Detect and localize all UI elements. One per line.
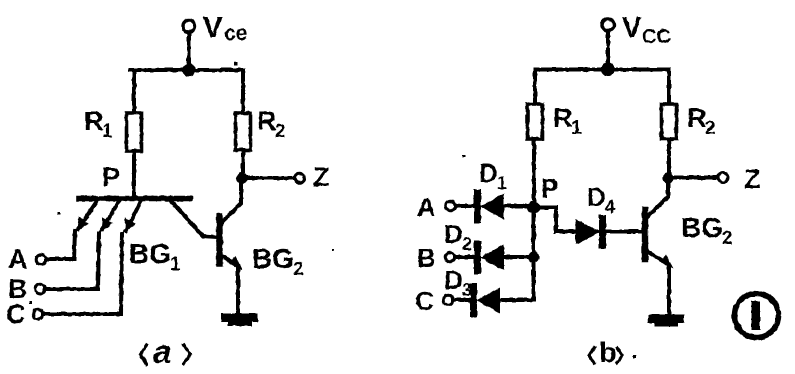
wire Vcc to rail (a)	[187, 33, 191, 71]
transistor BG1 emitter 1	[78, 201, 97, 229]
wire top rail (b)	[535, 68, 669, 72]
wire R2 to node (b)	[667, 139, 671, 174]
Vcc terminal (b)	[602, 19, 614, 31]
input terminal A (b)	[446, 201, 456, 211]
svg-text:Z: Z	[313, 162, 330, 192]
diode D4	[576, 219, 602, 245]
label BG1	[129, 238, 181, 275]
label Z (b)	[744, 164, 761, 194]
wire emitter1 to A	[46, 231, 75, 259]
svg-text:A: A	[417, 192, 436, 222]
wire emitter to ground (b)	[667, 264, 671, 315]
svg-text:C: C	[415, 286, 434, 316]
label Z (a)	[313, 162, 330, 192]
label B (b)	[417, 243, 436, 273]
svg-text:B: B	[417, 243, 436, 273]
wire B to D2	[455, 255, 476, 259]
transistor BG2 collector (a)	[222, 180, 241, 222]
wire rail to R1 (b)	[533, 70, 537, 105]
label Vcc (a)	[203, 12, 247, 45]
wire R1 to base bar (a)	[132, 151, 136, 199]
wire R1 to node P	[532, 139, 536, 207]
input terminal C (b)	[443, 295, 453, 305]
svg-text:2: 2	[293, 259, 304, 280]
label B (a)	[8, 274, 28, 304]
wire emitter2 to B	[45, 233, 99, 289]
transistor BG1 emitter 2	[102, 201, 119, 230]
wire Vcc to rail (b)	[606, 32, 610, 70]
svg-text:BG: BG	[681, 212, 723, 243]
label D3	[444, 265, 472, 300]
wire emitter3 to C	[43, 234, 122, 314]
wire A to D1	[456, 204, 477, 208]
label A (b)	[417, 192, 436, 222]
transistor BG2 emitter (a)	[222, 256, 236, 265]
resistor R2 (b)	[662, 104, 677, 139]
svg-text:D: D	[479, 158, 498, 188]
junction dot Vcc rail (b)	[601, 63, 614, 76]
svg-text:BG: BG	[129, 238, 171, 269]
label (a)	[141, 345, 191, 364]
svg-text:V: V	[622, 12, 642, 44]
svg-text:4: 4	[605, 197, 615, 217]
resistor R2 (a)	[236, 113, 251, 150]
node P label (b)	[541, 173, 558, 203]
label (b)	[589, 348, 622, 363]
wire D3 to bus corner	[499, 298, 534, 302]
svg-text:R: R	[84, 106, 104, 136]
wire D2 to bus	[503, 255, 530, 259]
label BG2 (b)	[681, 212, 733, 249]
ground (a)	[221, 314, 258, 327]
transistor BG1 emitter 3	[126, 201, 141, 231]
ground (b)	[648, 315, 684, 327]
svg-text:2: 2	[705, 118, 716, 139]
label D1	[479, 158, 507, 193]
label BG2 (a)	[252, 243, 304, 280]
label R2 (b)	[687, 103, 716, 139]
input terminal C (a)	[33, 309, 43, 319]
junction dot B row	[528, 251, 539, 262]
svg-text:1: 1	[497, 173, 507, 193]
input terminal B (b)	[445, 252, 455, 262]
transistor BG2 collector (b)	[648, 180, 668, 216]
input terminal B (a)	[35, 284, 45, 294]
label D4	[587, 182, 615, 217]
svg-text:1: 1	[571, 118, 582, 139]
label D2	[444, 219, 472, 254]
label C (b)	[415, 286, 434, 316]
svg-text:b: b	[599, 337, 617, 369]
svg-text:ce: ce	[224, 22, 247, 45]
svg-text:R: R	[553, 103, 573, 133]
wire P to D4	[534, 208, 576, 232]
wire D1 to P	[503, 204, 530, 208]
wire C to D3	[453, 298, 472, 302]
label A (a)	[8, 244, 28, 274]
wire bus P down to C row	[532, 208, 536, 301]
transistor BG2 emitter (b)	[648, 252, 666, 263]
junction dot collector Z (a)	[236, 172, 247, 183]
wire R2 to node (a)	[241, 150, 245, 176]
input terminal A (a)	[36, 255, 46, 265]
figure number I in circle	[735, 294, 779, 338]
scan specks	[29, 62, 636, 358]
svg-text:2: 2	[722, 228, 733, 249]
svg-text:CC: CC	[642, 26, 671, 48]
svg-text:D: D	[587, 182, 606, 212]
wire node to Z (a)	[242, 176, 294, 180]
diode D2	[474, 244, 481, 271]
svg-text:2: 2	[275, 121, 286, 142]
label R2 (a)	[257, 106, 286, 142]
svg-text:A: A	[8, 244, 28, 274]
diode D1	[474, 193, 481, 220]
wire node to Z (b)	[668, 176, 717, 180]
svg-text:P: P	[102, 162, 120, 192]
label R1 (b)	[553, 103, 582, 139]
wire D4 to BG2 base (b)	[605, 230, 642, 234]
wire top rail (a)	[130, 68, 244, 72]
svg-text:D: D	[444, 265, 463, 295]
junction dot Vcc rail (a)	[182, 63, 195, 76]
label R1 (a)	[84, 106, 113, 142]
svg-text:BG: BG	[252, 243, 294, 274]
Vcc terminal (a)	[183, 20, 195, 32]
svg-text:1: 1	[102, 121, 113, 142]
resistor R1 (b)	[528, 104, 543, 139]
transistor BG2 base bar (b)	[642, 210, 648, 259]
junction dot P	[527, 201, 540, 214]
output terminal Z (a)	[295, 173, 305, 183]
node P label (a)	[102, 162, 120, 192]
wire rail to R1 (a)	[132, 70, 136, 114]
svg-text:R: R	[257, 106, 277, 136]
label C (a)	[6, 299, 26, 329]
svg-text:V: V	[203, 12, 223, 44]
svg-text:D: D	[444, 219, 463, 249]
diode D3	[470, 287, 477, 314]
junction dot collector Z (b)	[662, 172, 673, 183]
svg-text:3: 3	[462, 280, 472, 300]
svg-text:Z: Z	[744, 164, 761, 194]
svg-text:P: P	[541, 173, 558, 203]
svg-text:1: 1	[170, 254, 181, 275]
transistor BG2 base bar (a)	[216, 217, 222, 264]
wire rail to R2 (b)	[667, 70, 671, 105]
svg-text:a: a	[153, 333, 171, 370]
transistor BG1 base bar	[79, 196, 190, 202]
label Vcc (b)	[622, 12, 671, 48]
transistor BG1 collector wire	[171, 201, 217, 237]
svg-text:R: R	[687, 103, 707, 133]
resistor R1 (a)	[127, 113, 142, 151]
svg-text:2: 2	[462, 234, 472, 254]
svg-text:C: C	[6, 299, 26, 329]
wire emitter to ground (a)	[236, 266, 240, 314]
wire rail to R2 (a)	[241, 70, 245, 113]
output terminal Z (b)	[718, 173, 728, 183]
